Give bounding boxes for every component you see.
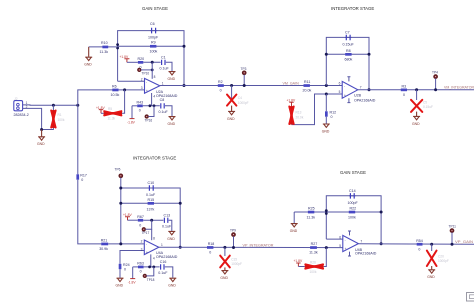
resistor R63 0 — [133, 262, 144, 274]
svg-text:-1.8V: -1.8V — [128, 280, 137, 284]
svg-text:0.15uF: 0.15uF — [423, 105, 433, 109]
wire V+ pin8 U4A — [151, 229, 153, 240]
capacitor C4 (DNP, red X) — [227, 86, 249, 106]
resistor R13 (DNP, red) — [289, 106, 303, 125]
wire R8 row — [326, 53, 369, 55]
wire U2A output to U2B pin6 — [160, 85, 342, 87]
svg-text:0.1uF: 0.1uF — [162, 224, 172, 228]
capacitor C13 0.1uF — [162, 213, 172, 228]
node junction DNP C20 — [430, 243, 433, 246]
svg-text:0.15uF: 0.15uF — [343, 43, 355, 47]
node junction at input DNP R1 — [52, 104, 55, 107]
svg-text:0.1uF: 0.1uF — [160, 66, 170, 70]
svg-text:-: - — [345, 238, 346, 242]
svg-text:INTEGRATOR STAGE: INTEGRATOR STAGE — [133, 156, 176, 161]
svg-text:100pF: 100pF — [348, 201, 359, 205]
wire V- pin4 U4A — [150, 254, 152, 267]
svg-text:1: 1 — [161, 243, 163, 247]
op-amp U4A OPA2168AID — [141, 239, 178, 260]
svg-text:GND: GND — [167, 237, 175, 241]
wire feedback box U4A — [121, 188, 180, 247]
svg-text:R11: R11 — [304, 80, 310, 84]
node junction main input — [76, 104, 79, 107]
ground GND (C5) — [412, 112, 420, 126]
svg-text:7: 7 — [360, 86, 362, 90]
wire C13 to gnd — [169, 220, 172, 231]
svg-text:VM_INTEGRATOR: VM_INTEGRATOR — [444, 86, 474, 90]
resistor R25 11.3k — [307, 207, 316, 220]
node junction DNP C15 — [223, 246, 226, 249]
wire U2B output to right edge — [358, 89, 474, 91]
resistor R24 0 — [119, 263, 130, 278]
svg-text:1000pF: 1000pF — [438, 259, 449, 263]
wire U2A pin2 — [118, 80, 145, 82]
op-amp U2A OPA2168AID — [141, 77, 178, 98]
resistor R1 (DNP, red) — [51, 105, 65, 128]
svg-text:TP18: TP18 — [147, 278, 155, 282]
resistor R5 (DNP, red) — [101, 107, 122, 120]
wire junction down to DNP R5 — [122, 90, 125, 113]
svg-text:R26: R26 — [310, 260, 316, 264]
resistor R43 0 — [132, 101, 143, 113]
wire R63 to C16 — [144, 266, 160, 268]
ground GND (C4) — [227, 106, 235, 121]
resistor R54 0 — [416, 239, 423, 251]
wire junction down to DNP R26 — [324, 248, 327, 267]
svg-text:100k: 100k — [310, 270, 317, 274]
svg-text:OPA2168AID: OPA2168AID — [354, 98, 376, 102]
node junction U2B output feedback — [368, 88, 371, 91]
svg-text:R5: R5 — [108, 107, 112, 111]
ground GND (connector) — [37, 130, 45, 147]
resistor R9 100k — [150, 41, 158, 54]
svg-text:R43: R43 — [137, 101, 144, 105]
svg-text:OPA2168AID: OPA2168AID — [355, 252, 377, 256]
svg-text:+: + — [344, 93, 346, 97]
resistor R22 100k — [348, 207, 356, 220]
ground GND (C13) — [167, 231, 175, 240]
svg-text:8: 8 — [153, 236, 155, 240]
svg-text:R15: R15 — [148, 198, 155, 202]
svg-text:4: 4 — [153, 256, 155, 260]
node junction pin5/R12 — [325, 93, 328, 96]
svg-text:3: 3 — [141, 247, 143, 251]
node junction feedback/pin2 — [119, 242, 122, 245]
ground GND (C1) — [168, 72, 176, 81]
node junctions feedback left — [116, 43, 119, 46]
svg-text:0: 0 — [220, 89, 222, 93]
resistor R21 30.9k — [99, 239, 108, 251]
node junctions V- rail U2A — [149, 104, 152, 107]
resistor R18 0 — [207, 242, 214, 254]
ground GND (C16) — [168, 278, 176, 287]
svg-text:-: - — [146, 80, 147, 84]
svg-text:7: 7 — [360, 239, 362, 243]
svg-text:1000pF: 1000pF — [231, 262, 242, 266]
testpoint TP16 — [145, 106, 155, 123]
wire R67 to C13 — [143, 219, 163, 221]
sheet border corner box — [467, 293, 474, 302]
svg-text:R9: R9 — [151, 41, 156, 45]
capacitor C8 0.1uF — [159, 98, 169, 114]
svg-text:11.3k: 11.3k — [100, 50, 109, 54]
svg-text:+: + — [146, 89, 148, 93]
wire R20 to C1 — [143, 61, 160, 63]
testpoint TP10 — [138, 68, 154, 75]
svg-text:VM_GAIN: VM_GAIN — [283, 81, 300, 85]
svg-text:6: 6 — [339, 82, 341, 86]
wire U4A output to U4B pin5 — [159, 246, 343, 248]
svg-text:R2: R2 — [218, 80, 223, 84]
svg-text:0: 0 — [403, 93, 405, 97]
svg-text:0: 0 — [139, 223, 141, 227]
svg-text:R25: R25 — [308, 207, 315, 211]
ground GND (C15) — [220, 267, 228, 280]
node junctions R15 — [119, 202, 122, 205]
svg-text:0: 0 — [124, 267, 126, 271]
svg-text:TP3: TP3 — [241, 67, 247, 71]
wire U2B pin5 — [292, 94, 343, 125]
svg-text:C14: C14 — [349, 189, 356, 193]
node junction TP6/C10 — [119, 187, 122, 190]
wire U4B pin6 — [326, 238, 343, 240]
svg-text:R54: R54 — [416, 239, 423, 243]
power +1.8V (U2A supply) — [120, 55, 130, 62]
resistor R20 0 — [138, 57, 145, 69]
svg-text:R10: R10 — [101, 41, 108, 45]
power -1.8V (U4A supply) — [128, 267, 137, 285]
capacitor C10 0.1uF — [146, 181, 156, 197]
svg-text:5: 5 — [339, 90, 341, 94]
svg-text:11.3k: 11.3k — [108, 117, 116, 121]
ground GND (C20) — [427, 266, 435, 279]
svg-text:GND: GND — [116, 284, 124, 288]
node junction below connector — [40, 128, 43, 131]
resistor R17 0 — [76, 174, 101, 244]
node junction DNP C4 — [230, 84, 233, 87]
node junction U2B pin6 / feedback — [325, 84, 328, 87]
wire C8 to gnd — [165, 106, 172, 116]
power +1.8V (at R5) — [96, 106, 106, 114]
svg-text:0: 0 — [81, 178, 83, 182]
svg-text:GND: GND — [227, 117, 235, 121]
svg-text:C6: C6 — [150, 22, 155, 26]
ground GND (C8) — [168, 117, 176, 126]
svg-text:+: + — [146, 250, 148, 254]
svg-text:R27: R27 — [311, 242, 318, 246]
wire left rail to lower stage — [77, 105, 79, 174]
capacitor C16 0.1uF — [158, 260, 168, 275]
node junction R5 tap — [123, 88, 126, 91]
wire feedback box U4B — [326, 196, 381, 244]
svg-text:-: - — [344, 84, 345, 88]
svg-text:R18: R18 — [208, 242, 215, 246]
svg-text:C7: C7 — [345, 30, 350, 34]
wire C16 to gnd — [165, 267, 173, 278]
svg-text:VP_INTEGRATOR: VP_INTEGRATOR — [243, 243, 274, 247]
testpoint TP6 — [115, 167, 123, 188]
svg-text:GND: GND — [84, 63, 92, 67]
svg-text:GND: GND — [37, 142, 45, 146]
svg-text:C20: C20 — [438, 254, 444, 258]
capacitor C5 (DNP, red X) — [411, 90, 433, 112]
capacitor C6 100pF — [148, 22, 159, 40]
wire V+ pin8 U2A — [151, 62, 153, 79]
svg-text:R67: R67 — [137, 215, 144, 219]
testpoint TP17 — [142, 220, 152, 235]
svg-text:R1: R1 — [58, 113, 62, 117]
node junction U4A output feedback — [179, 246, 182, 249]
svg-text:100k: 100k — [348, 215, 356, 219]
node junctions V- rail U4A — [148, 266, 151, 269]
svg-text:R3: R3 — [402, 84, 407, 88]
svg-text:R22: R22 — [350, 207, 357, 211]
resistor R15 137k — [147, 198, 155, 211]
svg-text:C1: C1 — [161, 55, 166, 59]
svg-text:R13: R13 — [296, 110, 302, 114]
svg-text:GND: GND — [168, 122, 176, 126]
wire +1.8V to R67 — [128, 219, 138, 221]
resistor R67 0 — [137, 215, 144, 227]
resistor R26 (DNP, red) — [298, 260, 323, 273]
svg-text:C15: C15 — [231, 257, 237, 261]
wire U4A pin3 to R24 — [120, 251, 144, 264]
svg-text:0: 0 — [140, 270, 142, 274]
svg-text:R63: R63 — [137, 262, 144, 266]
capacitor C1 0.1uF — [160, 55, 170, 70]
svg-text:680k: 680k — [345, 58, 353, 62]
svg-text:2: 2 — [141, 77, 143, 81]
power +1.8V (R13) — [287, 98, 297, 106]
resistor R12 0 — [325, 94, 336, 124]
svg-text:20.0k: 20.0k — [296, 115, 304, 119]
capacitor C7 0.15uF — [343, 30, 355, 46]
svg-text:GAIN STAGE: GAIN STAGE — [340, 170, 366, 175]
svg-text:VP_GAIN: VP_GAIN — [455, 240, 473, 244]
capacitor C14 100pF — [348, 189, 359, 205]
svg-text:J2: J2 — [14, 97, 18, 101]
wire R43 to C8 — [143, 105, 160, 107]
svg-text:GND: GND — [412, 122, 420, 126]
resistor R3 0 — [401, 84, 407, 96]
wire R6 to U2A pin3 — [119, 89, 145, 91]
svg-text:2: 2 — [141, 239, 143, 243]
svg-text:GND: GND — [322, 129, 330, 133]
svg-text:INTEGRATOR STAGE: INTEGRATOR STAGE — [331, 6, 374, 11]
testpoint TP11 — [449, 224, 457, 245]
power +1.8V (R26) — [294, 259, 304, 266]
svg-text:0.1uF: 0.1uF — [159, 110, 169, 114]
svg-text:100k: 100k — [150, 50, 158, 54]
connector J2 282834-2 — [14, 97, 29, 117]
svg-text:282834-2: 282834-2 — [14, 113, 29, 117]
power -1.8V (U2A supply) — [127, 106, 136, 125]
svg-text:137k: 137k — [147, 207, 155, 211]
svg-text:-: - — [146, 243, 147, 247]
resistor R8 680k — [345, 49, 353, 62]
svg-text:20.0k: 20.0k — [303, 88, 312, 92]
svg-text:U2B: U2B — [354, 94, 362, 98]
svg-text:100k: 100k — [58, 118, 65, 122]
resistor R2 0 — [218, 80, 224, 92]
svg-text:TP4: TP4 — [432, 71, 438, 75]
wire main node up to R6 line — [78, 90, 113, 105]
wire V- pin4 U2A — [151, 93, 153, 106]
svg-text:C13: C13 — [164, 213, 171, 217]
svg-text:C4: C4 — [238, 96, 242, 100]
svg-text:-1.8V: -1.8V — [127, 120, 136, 124]
svg-text:TP10: TP10 — [142, 72, 150, 76]
svg-text:10.5k: 10.5k — [111, 93, 120, 97]
node junction R9 right — [183, 45, 186, 48]
svg-text:0: 0 — [331, 115, 333, 119]
testpoint TP3 — [241, 67, 247, 87]
svg-text:TP17: TP17 — [142, 231, 150, 235]
svg-text:1000pF: 1000pF — [238, 101, 249, 105]
svg-text:C5: C5 — [423, 100, 427, 104]
svg-text:C10: C10 — [148, 181, 155, 185]
svg-text:TP16: TP16 — [145, 118, 153, 122]
testpoint TP18 — [143, 267, 154, 282]
wire feedback box U2B — [326, 37, 369, 89]
wire feedback left vertical U2A — [118, 31, 184, 86]
resistor R6 10.5k — [111, 85, 120, 97]
svg-text:0.1uF: 0.1uF — [146, 193, 156, 197]
wire R21 to U4A pin2 — [108, 243, 144, 245]
testpoint TP9 — [230, 229, 236, 249]
resistor R10 11.3k — [89, 41, 118, 54]
op-amp U4B OPA2168AID — [339, 231, 377, 256]
ground GND (R12) — [322, 124, 330, 133]
wire +1.8V to R20 — [127, 61, 138, 63]
capacitor C20 (DNP, red X) — [427, 244, 449, 266]
svg-text:TP9: TP9 — [230, 229, 236, 233]
svg-text:11.3k: 11.3k — [307, 215, 316, 219]
testpoint TP4 — [432, 71, 438, 92]
capacitor C15 (DNP, red X) — [220, 247, 242, 267]
wire R9 row — [118, 45, 184, 47]
svg-text:100pF: 100pF — [148, 36, 159, 40]
svg-text:GND: GND — [168, 284, 176, 288]
wire connector pin1 to main node — [23, 104, 78, 106]
svg-text:30.9k: 30.9k — [99, 247, 108, 251]
svg-text:GND: GND — [290, 229, 298, 233]
svg-text:GAIN STAGE: GAIN STAGE — [142, 6, 168, 11]
wire C1 to gnd — [166, 62, 172, 71]
svg-text:5: 5 — [339, 244, 341, 248]
node junction V+ rail U2A — [151, 61, 154, 64]
wire gnd node to R1 bottom — [42, 128, 54, 130]
svg-text:11.3k: 11.3k — [309, 251, 318, 255]
wire R15 row — [121, 202, 180, 204]
resistor R11 20.0k — [303, 80, 312, 92]
resistor R27 11.3k — [309, 242, 318, 254]
node junction U4B pin5 / DNP R26 — [325, 246, 328, 249]
svg-text:TP6: TP6 — [115, 167, 121, 171]
node junction DNP C5 — [415, 88, 418, 91]
node junctions R22/R25 — [325, 209, 328, 212]
svg-text:+: + — [345, 247, 347, 251]
node junction V+ rail U4A — [150, 219, 153, 222]
svg-text:3: 3 — [141, 86, 143, 90]
svg-text:R8: R8 — [346, 49, 351, 53]
wire connector pin2 down to gnd node — [23, 108, 42, 129]
svg-text:OPA2168AID: OPA2168AID — [156, 255, 178, 259]
svg-text:R6: R6 — [112, 85, 117, 89]
svg-text:GND: GND — [168, 77, 176, 81]
ground GND (R24) — [116, 278, 124, 287]
svg-text:GND: GND — [427, 275, 435, 279]
svg-text:GND: GND — [220, 276, 228, 280]
node junctions R8 — [325, 53, 328, 56]
svg-text:8: 8 — [154, 75, 156, 79]
wire R22 row — [294, 211, 381, 213]
wire U4B output to right edge — [358, 243, 474, 245]
svg-text:C16: C16 — [160, 260, 167, 264]
svg-text:0: 0 — [418, 247, 420, 251]
svg-text:C8: C8 — [160, 98, 165, 102]
svg-text:R20: R20 — [138, 57, 145, 61]
svg-text:0: 0 — [209, 251, 211, 255]
svg-text:0: 0 — [139, 109, 141, 113]
node junction U2A output feedback — [183, 84, 186, 87]
ground GND (R25) — [290, 212, 298, 233]
svg-text:6: 6 — [339, 235, 341, 239]
svg-text:R21: R21 — [101, 239, 108, 243]
power +1.8V (U4A supply) — [123, 213, 133, 220]
op-amp U2B OPA2168AID — [339, 77, 376, 103]
svg-text:TP11: TP11 — [449, 224, 457, 228]
ground GND (R10) — [84, 47, 92, 67]
svg-text:0.1uF: 0.1uF — [158, 271, 168, 275]
node junction U4B output feedback — [380, 242, 383, 245]
